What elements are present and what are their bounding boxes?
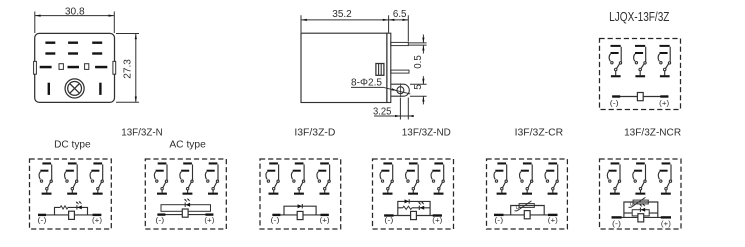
svg-text:(-): (-) [612, 219, 621, 228]
ND terminal bar negative [384, 214, 393, 216]
svg-text:(+): (+) [659, 98, 669, 107]
svg-text:I3F/3Z-CR: I3F/3Z-CR [515, 127, 564, 138]
I3F/3Z-D contact pole 3 [317, 162, 330, 194]
NCR wire main [612, 216, 672, 218]
dimension 27.3 [116, 34, 139, 103]
dimension 3.25 [373, 98, 414, 120]
dimension 35.2 [301, 9, 389, 33]
label 8-phi2.5 with leader [351, 77, 410, 94]
ND parallel branch wire upper [398, 201, 430, 215]
svg-text:U: U [515, 205, 519, 211]
svg-text:30.8: 30.8 [65, 7, 85, 18]
svg-text:LJQX-13F/3Z: LJQX-13F/3Z [609, 10, 670, 24]
mounting clip hatched [376, 64, 384, 76]
svg-text:U: U [629, 201, 633, 207]
coil [637, 93, 643, 101]
dimension 6.5 [389, 9, 409, 41]
latch window right [85, 64, 89, 70]
CR wire main [494, 214, 558, 216]
I3F/3Z-CR contact pole 2 [520, 162, 533, 194]
diode VD [298, 204, 303, 208]
AC rectifier module box [161, 205, 211, 212]
svg-text:5: 5 [413, 84, 424, 90]
svg-text:(+): (+) [661, 219, 671, 228]
contact pole 2 [634, 45, 647, 77]
svg-text:(-): (-) [384, 215, 393, 224]
svg-text:DC type: DC type [54, 140, 91, 151]
CR parallel branch wire [511, 206, 545, 215]
svg-text:(-): (-) [494, 215, 503, 224]
side tab left [34, 61, 37, 74]
enclosure AC type [145, 159, 226, 229]
svg-text:35.2: 35.2 [332, 9, 352, 20]
DC parallel branch wire [55, 207, 88, 215]
enclosure I3F/3Z-D [260, 159, 341, 229]
indicator lamp [65, 79, 84, 98]
varistor RV [515, 201, 535, 211]
svg-text:3.25: 3.25 [373, 106, 392, 117]
D wire main [272, 214, 328, 216]
enclosure LJQX-13F/3Z [600, 39, 681, 110]
svg-text:(+): (+) [548, 215, 558, 224]
svg-text:(+): (+) [204, 215, 214, 224]
svg-text:6.5: 6.5 [393, 9, 407, 20]
latch window left [59, 64, 63, 70]
terminal bar positive [660, 95, 668, 97]
DC terminal bar negative [38, 214, 46, 216]
pin 1 [391, 42, 409, 45]
D coil K [297, 211, 303, 219]
NCR terminal bar positive [661, 216, 671, 218]
svg-text:(+): (+) [92, 215, 102, 224]
D terminal bar negative [272, 214, 280, 216]
CR terminal bar positive [548, 214, 558, 216]
contact pole 3 [658, 45, 671, 77]
DC type contact pole 1 [39, 162, 52, 194]
side tab right [113, 61, 116, 74]
ND resistor R [403, 206, 412, 209]
NCR parallel branch wire outer [624, 202, 658, 217]
I3F/3Z-CR contact pole 3 [545, 162, 558, 194]
AC type contact pole 1 [154, 162, 167, 194]
DC type contact pole 2 [65, 162, 78, 194]
13F/3Z-NCR contact pole 3 [658, 162, 671, 194]
D parallel branch wire [284, 206, 316, 215]
AC type contact pole 3 [205, 162, 218, 194]
terminal bar negative [612, 95, 620, 97]
13F/3Z-ND contact pole 2 [406, 162, 419, 194]
release bar left [48, 83, 50, 95]
svg-text:I3F/3Z-D: I3F/3Z-D [294, 127, 335, 138]
AC terminal bar negative [157, 213, 165, 215]
I3F/3Z-D contact pole 2 [291, 162, 304, 194]
ND coil K [411, 211, 417, 219]
ND parallel branch wire middle [398, 207, 430, 209]
coil wire [612, 96, 668, 98]
D terminal bar positive [321, 214, 329, 216]
svg-text:27.3: 27.3 [122, 59, 133, 79]
ND LED VL [418, 201, 424, 210]
AC wire main [157, 214, 213, 216]
AC coil K [182, 209, 188, 217]
svg-text:0.5: 0.5 [413, 55, 424, 69]
dimension 5 [410, 76, 427, 104]
NCR terminal bar negative [612, 216, 622, 218]
enclosure I3F/3Z-CR [487, 159, 568, 229]
terminal lug with hole [391, 83, 410, 97]
resistor R [60, 206, 68, 209]
svg-text:(-): (-) [155, 215, 164, 224]
CR coil K [524, 211, 530, 219]
coil K [69, 211, 75, 219]
svg-text:13F/3Z-ND: 13F/3Z-ND [402, 127, 451, 138]
CR terminal bar negative [494, 214, 504, 216]
ND terminal bar positive [433, 214, 442, 216]
13F/3Z-ND contact pole 1 [380, 162, 393, 194]
svg-text:8-Φ2.5: 8-Φ2.5 [351, 77, 382, 88]
enclosure 13F/3Z-ND [373, 159, 454, 229]
svg-text:13F/3Z-N: 13F/3Z-N [121, 127, 163, 138]
LED VL [76, 201, 82, 210]
dimension 0.5 [408, 35, 426, 69]
pin 2 [391, 70, 409, 73]
vent slots row 3 [40, 66, 108, 69]
vent slots row 1 [45, 42, 102, 44]
svg-text:13F/3Z-NCR: 13F/3Z-NCR [624, 127, 681, 138]
DC wire main [38, 214, 101, 216]
NCR stub wires [624, 212, 658, 214]
svg-text:(+): (+) [432, 215, 442, 224]
vent slots row 2 [45, 52, 102, 54]
13F/3Z-NCR contact pole 1 [607, 162, 620, 194]
13F/3Z-NCR contact pole 2 [633, 162, 646, 194]
dimension 30.8 [35, 7, 115, 33]
I3F/3Z-CR contact pole 1 [494, 162, 507, 194]
contact pole 1 [609, 45, 622, 77]
relay top view outline [35, 33, 115, 102]
relay side view body [301, 33, 391, 102]
AC LED VL [184, 198, 190, 207]
svg-text:AC type: AC type [169, 140, 206, 151]
ND wire main [384, 215, 442, 217]
AC terminal bar positive [205, 213, 213, 215]
release bar right [99, 83, 101, 95]
NCR coil K [638, 214, 644, 222]
svg-text:(-): (-) [610, 98, 619, 107]
svg-text:(-): (-) [38, 215, 47, 224]
NCR varistor RV [629, 197, 649, 207]
NCR rectifier box [632, 210, 649, 216]
DC terminal bar positive [93, 214, 102, 216]
AC type contact pole 2 [180, 162, 193, 194]
I3F/3Z-D contact pole 1 [266, 162, 279, 194]
NCR LED VL [639, 203, 645, 212]
svg-text:(-): (-) [271, 215, 280, 224]
ND diode VD [405, 199, 410, 203]
svg-text:(+): (+) [320, 215, 330, 224]
DC type contact pole 3 [90, 162, 103, 194]
enclosure DC type [30, 159, 112, 229]
enclosure 13F/3Z-NCR [600, 159, 682, 229]
13F/3Z-ND contact pole 3 [431, 162, 444, 194]
